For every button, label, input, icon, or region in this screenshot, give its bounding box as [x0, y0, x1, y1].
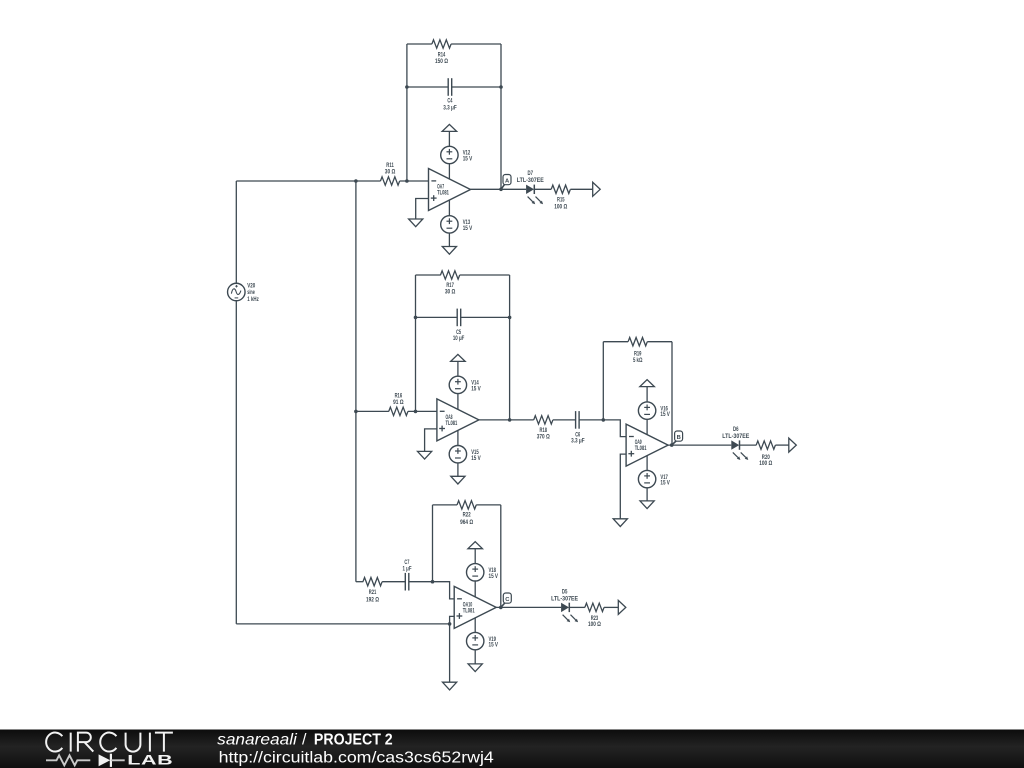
node junction C4 right [499, 85, 503, 89]
wire feedback left vertical stage4 [432, 505, 434, 582]
svg-text:15 V: 15 V [489, 643, 499, 649]
wire V13 to ground [448, 233, 450, 246]
svg-text:C5: C5 [456, 330, 461, 336]
voltage source V18 15 V [467, 564, 484, 581]
node junction bus-R16 [354, 410, 358, 414]
svg-text:OA9: OA9 [635, 440, 642, 446]
wire OA8 output [479, 419, 534, 421]
wire feedback left vertical stage1 [406, 44, 408, 181]
svg-text:1 kHz: 1 kHz [247, 297, 258, 303]
wire input bus vertical [355, 181, 357, 582]
svg-text:15 V: 15 V [489, 574, 499, 580]
logo CIRCUIT [46, 733, 62, 752]
svg-text:R11: R11 [386, 163, 394, 169]
wire OA9 output [668, 444, 731, 446]
output terminal stage1 [593, 182, 601, 196]
resistor R20 [756, 441, 775, 449]
voltage source V16 15 V [638, 402, 655, 419]
svg-text:192 Ω: 192 Ω [366, 597, 379, 603]
wire feedback top right segment stage4 [476, 504, 501, 506]
wire C6 to OA9 inverting [579, 420, 626, 437]
wire feedback left vertical stage2 [415, 275, 417, 411]
node junction C6-R19 [602, 418, 606, 422]
power flag above V18 [468, 542, 483, 549]
wire R15 to output terminal A [570, 188, 592, 190]
svg-text:30 Ω: 30 Ω [445, 290, 456, 296]
svg-text:C7: C7 [404, 560, 409, 566]
node junction C5 left [414, 316, 418, 320]
svg-text:D5: D5 [562, 590, 568, 596]
op-amp OA9 TL081 [626, 424, 668, 466]
ground below V13 [442, 247, 456, 255]
svg-text:TL081: TL081 [463, 609, 475, 615]
voltage source V17 15 V [638, 470, 655, 487]
wire feedback top right segment stage2 [460, 274, 510, 276]
led D6 LTL-307EE [731, 440, 739, 449]
capacitor C4 [447, 78, 449, 96]
resistor R21 [363, 578, 382, 586]
led D5 LTL-307EE [561, 603, 569, 612]
led D7 LTL-307EE [526, 185, 534, 194]
svg-text:LTL-307EE: LTL-307EE [517, 178, 544, 184]
ground OA10 noninverting [443, 682, 457, 690]
power flag above V14 [451, 354, 466, 361]
wire feedback top left segment stage4 [433, 504, 458, 506]
node junction feedback-inverting OA8 [414, 410, 418, 414]
svg-text:R17: R17 [446, 283, 454, 289]
wire V20 bottom [235, 301, 237, 624]
node junction OA9 output feedback [670, 443, 674, 447]
wire bus to R16 [356, 410, 389, 412]
ground below V15 [451, 476, 465, 484]
node junction C4 left [405, 85, 409, 89]
wire OA9 noninverting stub [620, 454, 626, 519]
wire OA10 noninverting stub [450, 616, 455, 682]
svg-text:http://circuitlab.com/cas3cs65: http://circuitlab.com/cas3cs652rwj4 [219, 750, 494, 767]
voltage source V15 15 V [449, 446, 466, 463]
wire C5 right segment [461, 316, 510, 318]
resistor R14 [432, 40, 451, 48]
power flag above V16 [640, 380, 655, 387]
wire OA10 output [496, 606, 561, 608]
wire C7 to OA10 inverting [409, 582, 454, 599]
wire V12 to OA7 V+ [448, 164, 450, 180]
op-amp OA8 TL081 [437, 399, 479, 441]
svg-text:964 Ω: 964 Ω [460, 520, 473, 526]
wire feedback top left segment stage3 [603, 341, 628, 343]
wire OA7 noninverting stub [416, 199, 429, 220]
wire V15 to ground [457, 463, 459, 476]
power flag above V12 [442, 124, 457, 131]
wire V19 to ground [474, 650, 476, 664]
wire bus corner to R21 [356, 581, 363, 583]
svg-text:370 Ω: 370 Ω [537, 435, 550, 441]
wire V17 to ground [646, 488, 648, 501]
ground OA9 noninverting [613, 519, 627, 527]
svg-text:1 μF: 1 μF [403, 566, 412, 572]
output terminal stage4 [618, 600, 626, 614]
svg-text:15 V: 15 V [471, 387, 481, 393]
svg-text:30 Ω: 30 Ω [385, 170, 396, 176]
svg-text:R16: R16 [395, 394, 403, 400]
svg-text:R22: R22 [463, 513, 471, 519]
svg-text:R15: R15 [557, 198, 565, 204]
wire feedback top left segment stage2 [416, 274, 441, 276]
svg-text:R18: R18 [540, 428, 548, 434]
svg-text:TL081: TL081 [635, 446, 647, 452]
wire arrow to V12 [448, 131, 450, 146]
svg-text:C4: C4 [447, 99, 452, 105]
wire V20 top to input rail [235, 181, 237, 283]
svg-text:sanareaali: sanareaali [217, 731, 297, 748]
wire R23 to output terminal C [604, 606, 618, 608]
node junction OA10 output feedback [499, 606, 503, 610]
svg-text:100 Ω: 100 Ω [554, 205, 567, 211]
wire V18 to OA10 V+ [474, 581, 476, 597]
ground below V19 [468, 664, 482, 672]
resistor R23 [585, 603, 604, 611]
wire feedback top right segment stage1 [451, 43, 501, 45]
svg-text:91 Ω: 91 Ω [393, 400, 404, 406]
resistor R11 [380, 177, 399, 185]
wire feedback right vertical stage1 [500, 44, 502, 189]
svg-text:R19: R19 [634, 351, 642, 357]
wire D7 to R15 [534, 188, 551, 190]
svg-text:LTL-307EE: LTL-307EE [551, 597, 578, 603]
svg-text:sine: sine [247, 290, 255, 296]
svg-text:OA7: OA7 [437, 184, 444, 190]
svg-text:10 μF: 10 μF [453, 336, 465, 342]
output terminal stage3 [789, 438, 797, 452]
svg-text:TL081: TL081 [446, 421, 458, 427]
svg-text:150 Ω: 150 Ω [435, 59, 448, 65]
wire D5 to R23 [569, 606, 585, 608]
svg-text:15 V: 15 V [463, 157, 473, 163]
svg-text:100 Ω: 100 Ω [759, 461, 772, 467]
svg-text:OA8: OA8 [446, 415, 453, 421]
wire R20 to output terminal B [775, 444, 788, 446]
node flag B [672, 441, 676, 445]
wire C5 left segment [416, 316, 458, 318]
voltage source V13 15 V [441, 216, 458, 233]
node junction noninverting-V20 [448, 622, 452, 626]
svg-text:R21: R21 [369, 590, 377, 596]
wire C4 left segment [407, 86, 448, 88]
ground below V17 [640, 501, 654, 509]
svg-text:5 kΩ: 5 kΩ [633, 358, 643, 364]
wire feedback top left segment stage1 [407, 43, 432, 45]
op-amp OA10 TL081 [454, 586, 496, 628]
resistor R16 [389, 407, 408, 415]
wire OA7 V- to V13 [448, 200, 450, 216]
svg-text:OA10: OA10 [463, 602, 473, 608]
wire C4 right segment [452, 86, 501, 88]
capacitor C5 [456, 309, 458, 327]
wire R18 to C6 [553, 419, 576, 421]
wire OA8 noninverting stub [425, 429, 437, 452]
svg-text:V20: V20 [247, 284, 255, 290]
svg-text:B: B [677, 435, 681, 441]
resistor R15 [551, 185, 570, 193]
wire V16 to OA9 V+ [646, 419, 648, 435]
wire feedback right vertical stage3 [671, 342, 673, 445]
voltage source V19 15 V [467, 632, 484, 649]
voltage source V14 15 V [449, 376, 466, 393]
wire OA10 V- to V19 [474, 618, 476, 633]
svg-text:R23: R23 [591, 616, 599, 622]
resistor R19 [628, 338, 647, 346]
svg-text:R20: R20 [762, 455, 770, 461]
wire R16 to OA8 inverting input [408, 410, 437, 412]
wire OA7 output [471, 188, 527, 190]
svg-text:3.3 μF: 3.3 μF [443, 105, 457, 111]
svg-text:/: / [302, 731, 307, 748]
wire arrow to V16 [646, 387, 648, 402]
op-amp OA7 TL081 [429, 169, 471, 211]
wire R21 to C7 [382, 581, 405, 583]
capacitor C6 [575, 411, 577, 429]
node junction OA8 output feedback [508, 418, 512, 422]
svg-text:TL081: TL081 [437, 191, 449, 197]
svg-text:LAB: LAB [127, 752, 173, 767]
node flag A [501, 185, 505, 190]
ground OA8 noninverting [418, 451, 432, 459]
svg-text:C6: C6 [575, 433, 580, 439]
wire feedback right vertical stage2 [509, 275, 511, 420]
wire feedback right vertical stage4 [500, 505, 502, 608]
wire R11 to OA7 inverting input [400, 180, 429, 182]
capacitor C7 [404, 573, 406, 591]
resistor R17 [441, 271, 460, 279]
svg-text:LTL-307EE: LTL-307EE [722, 434, 749, 440]
node junction bus-R11 [354, 179, 358, 183]
svg-text:D7: D7 [528, 171, 534, 177]
wire input rail top [236, 180, 380, 182]
wire arrow to V18 [474, 549, 476, 564]
resistor R22 [457, 501, 476, 509]
svg-text:15 V: 15 V [660, 412, 670, 418]
svg-text:PROJECT 2: PROJECT 2 [314, 731, 393, 748]
node flag C [501, 603, 505, 607]
wire bottom to OA10 noninverting [236, 623, 449, 625]
ground OA7 noninverting [409, 219, 423, 227]
node junction C5 right [508, 316, 512, 320]
wire OA8 V- to V15 [457, 430, 459, 445]
svg-text:R14: R14 [438, 53, 446, 59]
svg-text:100 Ω: 100 Ω [588, 622, 601, 628]
svg-text:15 V: 15 V [463, 226, 473, 232]
node junction feedback-inverting OA7 [405, 179, 409, 183]
wire feedback left vertical stage3 [602, 342, 604, 420]
svg-text:3.3 μF: 3.3 μF [571, 439, 585, 445]
svg-text:15 V: 15 V [660, 481, 670, 487]
svg-text:15 V: 15 V [471, 456, 481, 462]
wire OA9 V- to V17 [646, 455, 648, 470]
node junction C7-R22 [431, 580, 435, 584]
node junction OA7 output feedback [499, 188, 503, 192]
voltage source V12 15 V [441, 146, 458, 163]
logo resistor-diode glyph [46, 755, 90, 765]
wire arrow to V14 [457, 361, 459, 376]
wire V14 to OA8 V+ [457, 394, 459, 410]
wire D6 to R20 [740, 444, 757, 446]
svg-text:D6: D6 [733, 427, 739, 433]
resistor R18 [534, 416, 553, 424]
wire feedback top right segment stage3 [647, 341, 672, 343]
voltage source V20 sine 1 kHz [228, 283, 246, 301]
